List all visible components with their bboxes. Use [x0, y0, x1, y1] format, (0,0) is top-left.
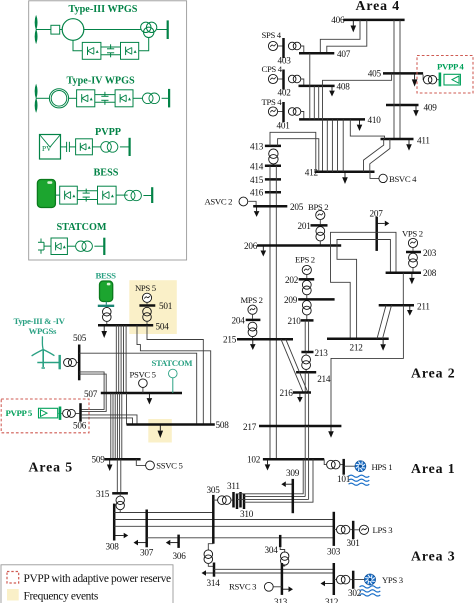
- legend stator wire to transformer: [84, 29, 141, 31]
- svg-text:505: 505: [73, 333, 87, 343]
- wire 308-303 line 1: [114, 519, 334, 521]
- wire 507-509 circuit 6: [121, 393, 123, 459]
- svg-text:Frequency events: Frequency events: [24, 591, 99, 603]
- label 216: [280, 388, 294, 398]
- wire PVPP5 box-bus: [58, 412, 59, 414]
- label PSVC 5: [130, 369, 156, 379]
- svg-text:410: 410: [368, 115, 382, 125]
- bus 214: [296, 371, 316, 374]
- legend wire blades-gearbox: [36, 29, 51, 31]
- legend wire transformer-bus: [157, 29, 168, 31]
- label 413: [250, 141, 264, 151]
- wire 314-313-312 line 1: [214, 568, 334, 570]
- svg-text:PVPP: PVPP: [95, 127, 121, 138]
- svg-text:415: 415: [250, 175, 264, 185]
- svg-text:212: 212: [350, 343, 364, 353]
- bus 416: [265, 191, 281, 194]
- label MPS 2: [241, 295, 263, 305]
- bus 209: [298, 298, 334, 301]
- transformer BESS-504: [103, 307, 112, 321]
- wire SPS-bus403: [277, 45, 283, 47]
- label SPS 4: [262, 30, 282, 40]
- bus 210: [301, 319, 314, 322]
- wire 414-102 long line 1: [269, 166, 271, 460]
- wire bus301-LPS: [353, 529, 359, 531]
- legend wire converter-transformer (STATCOM): [67, 245, 75, 247]
- label 203: [423, 248, 437, 258]
- wire transformer-bus208: [412, 267, 414, 273]
- SVC ASVC 2: [239, 197, 248, 206]
- bus 402: [282, 70, 285, 90]
- wire 304-transformer jog: [280, 547, 285, 552]
- wire 405-409-411 circuit 2: [399, 73, 401, 139]
- label 304: [265, 545, 279, 555]
- wire 407-410: [309, 53, 311, 119]
- label 210: [288, 316, 302, 326]
- Area 4 label: [356, 0, 401, 13]
- label RSVC 3: [229, 581, 256, 591]
- wire 507-508: [126, 393, 128, 425]
- wire 504-507 circuit 1: [115, 325, 117, 393]
- wire MPS-bus204: [252, 314, 254, 319]
- wire transformer-bus302: [350, 579, 353, 581]
- bus 215: [237, 338, 293, 341]
- bus 403: [282, 38, 285, 58]
- bus 308: [113, 504, 116, 541]
- bus 508: [127, 423, 215, 426]
- label BESS (area 5): [96, 270, 117, 280]
- bottom legend frequency icon: [7, 589, 19, 601]
- svg-text:501: 501: [159, 301, 173, 311]
- svg-text:BESS: BESS: [96, 270, 117, 280]
- wire transformer-bus206: [319, 240, 321, 245]
- load on bus 205: [254, 206, 260, 217]
- legend 3-winding transformer: [141, 22, 157, 37]
- svg-text:210: 210: [288, 316, 302, 326]
- bus 412: [315, 171, 375, 174]
- wire 408-410 circuit 1: [313, 86, 315, 120]
- bus 501: [139, 304, 155, 307]
- bus 101: [342, 459, 345, 475]
- svg-text:RSVC 3: RSVC 3: [229, 581, 256, 591]
- transformer TPS 401-410: [288, 108, 300, 116]
- legend grid-side converter (Type-IV): [115, 90, 133, 107]
- hydro generator HPS 1: [355, 461, 366, 472]
- transformer 213-214: [302, 355, 311, 369]
- bus 201: [311, 224, 328, 227]
- wire 215-216 circuit 1: [281, 339, 303, 392]
- wire PVPP5 transformer-bus506: [61, 412, 79, 414]
- generator EPS 2: [302, 265, 311, 274]
- transformer 304-313: [281, 552, 289, 565]
- load on bus 102: [265, 459, 271, 470]
- wire 315-transformer: [119, 493, 121, 496]
- BESS battery (area 5): [100, 281, 113, 302]
- wire 410-412 circuit 2: [331, 119, 333, 171]
- bus 315: [112, 492, 128, 495]
- load on bus 411: [406, 139, 412, 151]
- legend PV panel: [40, 135, 61, 160]
- bus 506: [79, 403, 82, 422]
- svg-text:NPS 5: NPS 5: [135, 283, 156, 293]
- label 416: [250, 188, 264, 198]
- wire 308-305 line: [114, 512, 213, 514]
- transformer LPS 303-301: [337, 525, 350, 534]
- wire NPS transformer-bus504: [146, 321, 148, 325]
- load on bus 405: [412, 73, 418, 86]
- bus 401: [282, 102, 285, 122]
- legend wire inverter-transformer (BESS): [116, 194, 128, 196]
- wire 410-412 circuit 3: [337, 119, 339, 171]
- label 305: [207, 485, 221, 495]
- wire 411-412 circuit 2: [370, 139, 390, 172]
- legend wire panel-capacitor: [61, 146, 64, 148]
- svg-text:413: 413: [250, 141, 264, 151]
- svg-text:509: 509: [92, 455, 106, 465]
- label 414: [250, 161, 264, 171]
- svg-text:214: 214: [317, 374, 331, 384]
- load on bus 412: [342, 172, 348, 184]
- label 301: [347, 538, 361, 548]
- wire bus303-LPS transformer: [334, 529, 337, 531]
- Area 2 label: [411, 366, 456, 381]
- transformer EPS 202-209: [302, 280, 311, 294]
- svg-text:405: 405: [368, 69, 382, 79]
- legend wire transformer-bus (Type-IV): [162, 97, 170, 99]
- wind farm WPGS (area 5): [32, 336, 55, 368]
- label EPS 2: [295, 254, 315, 264]
- wire 410-412 circuit 1: [326, 119, 328, 171]
- label 213: [315, 348, 329, 358]
- label 211: [417, 302, 430, 312]
- legend transformer (STATCOM): [76, 241, 93, 251]
- wire BSVC4 connection: [370, 172, 379, 179]
- PVPP 5 adaptive-reserve dashed frame: [1, 399, 89, 433]
- legend wire blades-generator: [36, 97, 50, 99]
- wire 305-transformer311: [213, 499, 217, 501]
- svg-text:WPGSs: WPGSs: [29, 326, 58, 336]
- wire 102-216 long pair join 2: [308, 459, 310, 499]
- generator NPS 5: [142, 293, 151, 302]
- svg-text:213: 213: [315, 348, 329, 358]
- legend title Type-III WPGS: [69, 4, 138, 15]
- frequency event highlight at bus 508: [148, 419, 172, 443]
- transformer 209-210: [302, 301, 311, 315]
- bus 313: [281, 563, 284, 595]
- series bus 310 bar 2: [243, 494, 246, 510]
- bus 204: [246, 319, 261, 322]
- legend battery: [37, 180, 55, 208]
- series bus 310 bar 1: [239, 492, 242, 508]
- transformer NPS 501-504: [143, 307, 152, 321]
- legend dc-dc converter (BESS): [60, 186, 78, 204]
- label 207: [370, 209, 384, 219]
- label Type-III and -IV: [14, 316, 66, 326]
- wire transformer-bus215: [252, 336, 254, 339]
- bus 408: [299, 85, 335, 88]
- wire TPS-bus401: [277, 111, 283, 113]
- svg-text:414: 414: [250, 161, 264, 171]
- wire 102-216 long pair join 1: [304, 459, 306, 496]
- bus 208: [386, 272, 421, 275]
- svg-text:303: 303: [327, 547, 341, 557]
- transformer 315-308: [116, 496, 124, 510]
- generator VPS 2: [408, 238, 417, 247]
- legend grid bus (BESS): [151, 187, 153, 203]
- load on bus 507: [147, 393, 153, 405]
- bus 309: [292, 479, 295, 513]
- label 410: [368, 115, 382, 125]
- wire 216-217 circuit 1: [304, 393, 306, 427]
- wire 411-412 circuit 1: [364, 139, 384, 172]
- load on bus 312: [321, 581, 334, 587]
- label 507: [84, 389, 98, 399]
- SVC RSVC 3: [264, 582, 273, 591]
- label STATCOM (area 5): [152, 358, 194, 368]
- svg-text:Type-IV WPGS: Type-IV WPGS: [67, 76, 136, 87]
- bus 505: [78, 345, 81, 381]
- label 405: [368, 69, 382, 79]
- label 202: [285, 275, 299, 285]
- label 302: [348, 588, 362, 598]
- label 208: [423, 268, 437, 278]
- bus 314: [213, 563, 216, 577]
- legend machine-side converter: [77, 90, 95, 107]
- transformer PVPP 5: [63, 409, 76, 417]
- label ASVC 2: [205, 197, 233, 207]
- load on bus 508: [158, 425, 164, 439]
- bus 203: [406, 251, 421, 254]
- generator BPS 2: [316, 210, 325, 219]
- svg-text:PVPP 4: PVPP 4: [437, 62, 464, 72]
- bus 207: [375, 217, 378, 251]
- generator CPS 4: [268, 74, 277, 83]
- bus 409: [386, 104, 419, 107]
- generator LPS 3: [359, 525, 368, 534]
- label 505: [73, 333, 87, 343]
- load on bus 504: [101, 325, 107, 338]
- wire 210-213 circuit 2: [308, 320, 310, 352]
- wire 504-507 circuit 3: [120, 325, 122, 393]
- label 412: [305, 168, 319, 178]
- legend wind blades (Type-III): [35, 16, 37, 43]
- svg-text:206: 206: [244, 241, 258, 251]
- svg-text:412: 412: [305, 168, 319, 178]
- svg-text:PV: PV: [42, 144, 52, 153]
- bus 415: [265, 178, 281, 181]
- STATCOM (area 5): [169, 369, 178, 378]
- svg-text:TPS 4: TPS 4: [262, 97, 283, 107]
- svg-text:408: 408: [337, 81, 351, 91]
- label 315: [96, 489, 110, 499]
- legend wire converter-transformer (Type-IV): [133, 97, 142, 99]
- PVPP 5 collector bus: [59, 407, 62, 420]
- svg-text:217: 217: [243, 422, 257, 432]
- wire transformer-bus301: [350, 529, 353, 531]
- bus 407: [299, 52, 334, 55]
- load on bus 217: [328, 426, 334, 438]
- label PVPP 5: [6, 408, 33, 418]
- wire 406-405 circuit 1: [393, 20, 395, 74]
- legend wire battery-converter: [55, 194, 59, 196]
- wire 504-508 circuit 1: [147, 325, 203, 424]
- wire 310-102 line 4: [244, 459, 313, 502]
- legend rotor-side converter: [82, 42, 101, 59]
- Area 1 label: [411, 461, 456, 476]
- wire 410-411: [350, 119, 384, 139]
- svg-text:PVPP 5: PVPP 5: [6, 408, 33, 418]
- svg-text:504: 504: [156, 322, 170, 332]
- load on bus 313: [282, 586, 293, 592]
- label BPS 2: [308, 202, 328, 212]
- bus 405: [383, 72, 423, 75]
- load on bus 306: [166, 540, 179, 546]
- legend transformer (PVPP): [101, 142, 118, 153]
- svg-text:304: 304: [265, 545, 279, 555]
- label 311: [227, 481, 240, 491]
- wire RSVC3-bus313: [273, 586, 282, 588]
- wire 507-509 circuit 1: [110, 393, 112, 459]
- wire 413-407/410 circuit 2: [278, 139, 319, 172]
- wire 408-410 circuit 2: [318, 86, 320, 120]
- wire transformer-PVPP4 bus: [437, 79, 440, 81]
- label 504: [156, 322, 170, 332]
- wire transformer-bus314: [208, 563, 214, 566]
- label 217: [243, 422, 257, 432]
- svg-text:Area 4: Area 4: [356, 0, 401, 13]
- label 201: [298, 221, 312, 231]
- label VPS 2: [402, 228, 423, 238]
- wire transformer-bus311: [231, 499, 233, 501]
- svg-text:308: 308: [106, 541, 120, 551]
- label 204: [232, 315, 246, 325]
- wire 504-507 circuit 2: [118, 325, 120, 393]
- bus 406: [343, 19, 404, 22]
- wire 314-313-312 line 2: [214, 572, 334, 574]
- label 102: [247, 455, 261, 465]
- label 308: [106, 541, 120, 551]
- label CPS 4: [262, 64, 283, 74]
- wire 506-508 circuit 1: [82, 415, 137, 425]
- label 205: [290, 202, 304, 212]
- load on bus 206: [261, 246, 267, 257]
- wire windfarm collector: [37, 362, 59, 364]
- legend grid bus (STATCOM): [103, 238, 105, 255]
- wire 406-405 circuit 2: [399, 20, 401, 74]
- legend title BESS: [94, 168, 119, 179]
- wire 505-506 circuit 1: [79, 372, 104, 410]
- wire 509-315 circuit 2: [120, 459, 122, 493]
- bus 306: [177, 535, 180, 548]
- wire 505-506 circuit 2: [79, 374, 106, 411]
- bus 507: [101, 392, 182, 395]
- wire 215-216 circuit 2: [286, 339, 308, 392]
- wire transformer-bus505: [76, 362, 79, 364]
- load on bus 308: [114, 533, 128, 539]
- label 407: [337, 49, 351, 59]
- svg-text:ASVC 2: ASVC 2: [205, 197, 233, 207]
- bus 205: [253, 205, 287, 208]
- wire SSVC5 connection: [136, 459, 145, 465]
- wire bus405-PVPP4 transformer: [422, 75, 425, 80]
- frequency event highlight at NPS 5: [129, 280, 177, 334]
- load on bus 307: [134, 540, 147, 546]
- label 509: [92, 455, 106, 465]
- wire 217-102 circuit 2: [308, 426, 310, 459]
- svg-text:211: 211: [417, 302, 430, 312]
- svg-text:STATCOM: STATCOM: [152, 358, 194, 368]
- legend dc link rail 1: [101, 47, 121, 55]
- svg-text:208: 208: [423, 268, 437, 278]
- wire 507-509 circuit 5: [119, 393, 121, 459]
- svg-text:201: 201: [298, 221, 312, 231]
- svg-text:203: 203: [423, 248, 437, 258]
- legend grid-side converter: [121, 42, 139, 59]
- bus 509: [105, 458, 141, 461]
- label BSVC 4: [389, 174, 417, 184]
- label 406: [331, 15, 345, 25]
- load on bus 216: [297, 393, 303, 403]
- wire 405-408-412: [323, 73, 392, 171]
- load on bus 509: [107, 459, 113, 471]
- transformer 413-414: [269, 149, 278, 164]
- svg-text:YPS 3: YPS 3: [382, 575, 403, 585]
- SVC PSVC 5: [139, 379, 148, 388]
- SVC SSVC 5: [146, 461, 155, 470]
- wire 413-407/410 circuit 1: [270, 132, 316, 172]
- transformer BPS 201-206: [316, 227, 325, 241]
- svg-text:Type-III & -IV: Type-III & -IV: [14, 316, 66, 326]
- load on bus 211: [407, 305, 413, 315]
- wire CPS-bus402: [277, 78, 283, 80]
- wire transformer-bus407: [301, 46, 304, 53]
- svg-text:MPS 2: MPS 2: [241, 295, 263, 305]
- label 101: [337, 474, 351, 484]
- bus 312: [333, 563, 336, 595]
- wire bus312-YPS transformer: [334, 579, 337, 581]
- label 411: [417, 136, 430, 146]
- series bus 311 bar 1: [232, 492, 235, 508]
- Area 5 label: [29, 459, 74, 474]
- wire 211-217: [331, 305, 403, 426]
- legend dc-link capacitor (Type-IV): [101, 92, 108, 105]
- wire 507-509 circuit 2: [112, 393, 114, 459]
- svg-text:306: 306: [173, 551, 187, 561]
- svg-text:SPS 4: SPS 4: [262, 30, 282, 40]
- svg-text:Area 3: Area 3: [411, 549, 456, 564]
- legend dc rails (Type-IV): [95, 95, 115, 103]
- label 314: [207, 578, 221, 588]
- svg-text:507: 507: [84, 389, 98, 399]
- bus 504: [98, 324, 153, 327]
- wire 216-217 circuit 2: [308, 393, 310, 427]
- wire 414-102 long line 2: [275, 166, 277, 460]
- svg-text:Area 5: Area 5: [29, 459, 74, 474]
- label 501: [159, 301, 173, 311]
- wire 308-303 line 2: [114, 525, 334, 527]
- label 307: [140, 548, 154, 558]
- wire 310-102/216 line 3: [237, 498, 309, 500]
- svg-text:313: 313: [274, 597, 288, 603]
- wire bus102-HPS transformer: [324, 459, 326, 464]
- wire 405-409-411 circuit 1: [393, 73, 395, 139]
- wire 210-213 circuit 1: [304, 320, 306, 352]
- svg-text:EPS 2: EPS 2: [295, 254, 315, 264]
- wire 217-102 circuit 1: [304, 426, 306, 459]
- legend inverter (BESS): [98, 186, 117, 204]
- svg-text:215: 215: [223, 335, 237, 345]
- bus 413: [265, 145, 281, 148]
